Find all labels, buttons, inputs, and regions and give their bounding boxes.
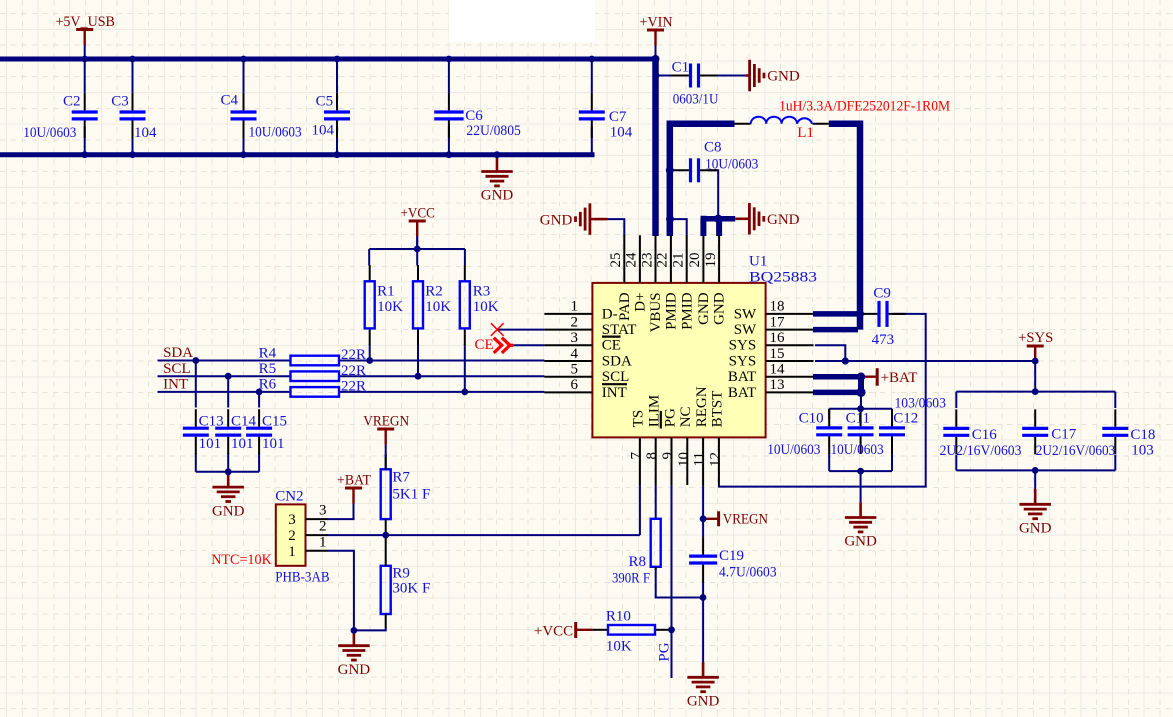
svg-text:C9: C9 (873, 286, 891, 302)
svg-text:22R: 22R (341, 347, 366, 363)
svg-text:U1: U1 (749, 254, 767, 270)
resistor R4 (291, 356, 340, 366)
svg-text:VREGN: VREGN (723, 512, 768, 528)
C18 designator (1130, 427, 1155, 443)
wire BAT to C10 group top rail (860, 394, 862, 409)
U1 pin 14 BAT (766, 376, 814, 378)
U1 pin 1 D- (544, 313, 592, 315)
svg-text:C19: C19 (719, 548, 744, 564)
capacitor C11 (848, 409, 874, 454)
svg-text:R8: R8 (628, 554, 646, 570)
svg-text:SCL: SCL (163, 361, 191, 377)
U1 pin 8 ILIM overline (660, 411, 662, 429)
C9 value 473 (872, 332, 895, 348)
capacitor C1 (656, 64, 718, 88)
wire C18 bottom lead (1114, 455, 1116, 470)
U1 pin 16 name SYS (729, 338, 757, 354)
CN2 pin 2 name (319, 519, 327, 535)
wire C17 group to GND (1034, 470, 1036, 489)
C10 designator (799, 411, 824, 427)
C13 designator (199, 414, 224, 430)
svg-text:11: 11 (692, 452, 708, 466)
C7 value 104 (610, 125, 633, 141)
C4 designator (220, 93, 238, 109)
ground left of U1 pin 25 PAD (540, 203, 608, 235)
svg-text:30K F: 30K F (392, 581, 430, 597)
svg-text:13: 13 (770, 377, 785, 393)
wire C8 right to GND bracket (708, 170, 718, 219)
power port +VIN (640, 15, 673, 60)
svg-text:C4: C4 (220, 93, 238, 109)
wire C18 top lead (1114, 392, 1116, 408)
R3 designator (473, 283, 491, 299)
svg-text:VREGN: VREGN (363, 414, 409, 430)
junction R3 INT (461, 389, 468, 396)
CN2 pin 1 name (319, 534, 327, 550)
U1 pin 2 number (571, 314, 579, 330)
svg-text:4.7U/0603: 4.7U/0603 (719, 565, 777, 581)
svg-text:CN2: CN2 (275, 489, 303, 505)
svg-text:1uH/3.3A/DFE252012F-1R0M: 1uH/3.3A/DFE252012F-1R0M (779, 99, 950, 115)
wire U1 PAD pin 25 to GND (608, 219, 625, 236)
svg-text:REGN: REGN (694, 386, 710, 427)
svg-text:21: 21 (671, 253, 687, 268)
U1 pin 23 number (639, 253, 655, 268)
R8 value 390R F (612, 571, 650, 587)
svg-text:C17: C17 (1051, 426, 1077, 442)
U1 pin 13 number (770, 377, 785, 393)
C14 designator (231, 414, 257, 430)
U1 pin 14 name BAT (728, 369, 756, 385)
C2 designator (63, 94, 81, 110)
U1 value BQ25883 (749, 270, 817, 286)
U1 pin 4 SDA (544, 360, 592, 362)
U1 pin 21 PMID (686, 235, 688, 283)
junction C8 left at PMID (666, 166, 674, 174)
svg-text:CE: CE (475, 337, 494, 353)
svg-text:12: 12 (707, 452, 723, 467)
wire C16 C17 C18 bottom rail (956, 469, 1115, 471)
wire C16 top lead (955, 392, 957, 408)
R10 designator (606, 609, 631, 625)
junction +VIN rail (652, 55, 660, 63)
wire GND bottom rail (0, 152, 595, 157)
junction +5V_USB C2 top (81, 56, 88, 63)
C11 designator (846, 411, 870, 427)
L1 designator (797, 125, 814, 141)
R9 designator (392, 565, 410, 581)
connector CN2 body (276, 504, 306, 565)
capacitor C12 (879, 409, 905, 454)
wire SDA row (158, 360, 291, 362)
R10 value 10K (606, 638, 632, 654)
C11 value 10U/0603 (831, 442, 884, 458)
CN2 pin 3 name (319, 503, 327, 519)
svg-text:2: 2 (288, 528, 296, 544)
svg-text:22R: 22R (341, 379, 366, 395)
svg-text:PAD: PAD (617, 292, 633, 321)
U1 pin 6 INT (544, 391, 592, 393)
capacitor C13 (183, 409, 209, 454)
capacitor C2 (72, 61, 98, 153)
wire NTC net: CN2 pin2 to U1 TS pin 7 (328, 485, 640, 535)
U1 pin 20 name GND (696, 292, 712, 325)
resistor R8 (651, 519, 661, 570)
resistor R2 (413, 265, 423, 345)
svg-text:GND: GND (767, 69, 800, 85)
U1 pin 25 PAD (623, 235, 625, 283)
R8 designator (628, 554, 646, 570)
junction +VCC distribution (414, 246, 421, 253)
U1 pin 11 number (692, 452, 708, 466)
C15 value 101 (262, 436, 285, 452)
svg-text:R5: R5 (259, 361, 277, 377)
C7 designator (609, 109, 627, 125)
U1 pin 22 number (655, 253, 671, 268)
U1 pin 3 CE overline (602, 336, 621, 338)
C14 value 101 (231, 436, 254, 452)
svg-text:C16: C16 (972, 427, 998, 443)
op-amp U1 body BQ25883 (592, 283, 765, 438)
resistor R5 (291, 371, 340, 381)
wire C13 bottom (195, 453, 197, 472)
wire C15 to INT row (258, 392, 260, 408)
svg-text:16: 16 (770, 330, 786, 346)
wire BAT: U1 pins 14 13 to +BAT (813, 374, 861, 395)
wire C10 C11 C12 bottom rail (829, 470, 892, 472)
svg-text:GND: GND (696, 292, 712, 325)
U1 pin 9 PG (671, 437, 673, 485)
U1 pin 7 TS (639, 437, 641, 485)
svg-text:3: 3 (288, 512, 296, 528)
capacitor C16 (943, 409, 969, 454)
ground below CN2 / R9 (338, 630, 371, 678)
svg-text:SW: SW (734, 322, 757, 338)
U1 pin 3 number (571, 330, 579, 346)
svg-text:2: 2 (319, 519, 327, 535)
net identifier CE chevrons (494, 338, 514, 353)
junction PMID pins 21 22 (666, 215, 674, 223)
wire +SYS from U1 SYS pins to C16 group (815, 360, 1035, 362)
C5 value 104 (312, 123, 335, 139)
ground right of GND bracket (735, 203, 799, 235)
wire R10 to PG junction (671, 629, 673, 631)
junction C4 bottom (240, 151, 247, 158)
svg-text:R2: R2 (425, 283, 443, 299)
U1 pin 18 SW (766, 313, 814, 315)
svg-text:+5V_USB: +5V_USB (55, 14, 115, 30)
C15 designator (262, 414, 287, 430)
svg-text:+BAT: +BAT (337, 473, 371, 489)
U1 pin 21 number (671, 253, 687, 268)
power port +BAT left (337, 473, 371, 518)
power port VREGN right (703, 511, 768, 527)
svg-text:22R: 22R (341, 363, 366, 379)
R2 value 10K (425, 299, 451, 315)
svg-text:GND: GND (1019, 521, 1052, 537)
junction C17 top (1032, 388, 1039, 395)
svg-text:L1: L1 (797, 125, 814, 141)
U1 pin 25 number (608, 253, 624, 268)
svg-text:R3: R3 (473, 283, 491, 299)
ground for C1 (right of C1) (746, 60, 800, 92)
C1 value 0603/1U (673, 92, 719, 108)
svg-text:103/0603: 103/0603 (895, 396, 946, 412)
junction C13 SDA (192, 357, 199, 364)
svg-text:C8: C8 (704, 140, 722, 156)
svg-text:4: 4 (571, 346, 579, 362)
wire R9 bottom to GND junction (354, 628, 386, 630)
power port +SYS (1018, 330, 1053, 361)
resistor R10 (593, 625, 670, 635)
wire INT row right of R6 (339, 391, 544, 393)
U1 pin 7 number (628, 452, 644, 460)
U1 pin 5 SCL (544, 376, 592, 378)
R4 designator (259, 346, 277, 362)
R5 designator (259, 361, 277, 377)
wire C19 bottom to GND (702, 582, 704, 598)
U1 pin 10 name NC (678, 406, 694, 427)
U1 pin 8 ILIM (655, 437, 657, 485)
NoERC cross on STAT (491, 323, 504, 336)
svg-text:+VCC: +VCC (400, 206, 435, 222)
net label SDA (163, 345, 193, 361)
U1 pin 13 name BAT (728, 385, 756, 401)
svg-text:1: 1 (288, 544, 296, 560)
R5 value 22R (341, 363, 366, 379)
power port +5V_USB (55, 14, 115, 59)
junction C15 INT (256, 389, 263, 396)
svg-text:104: 104 (312, 123, 335, 139)
wire C10 top lead (828, 409, 830, 419)
wire C16 C17 C18 top rail (956, 391, 1115, 393)
wire GND net below C19 (702, 598, 704, 663)
capacitor C8 (672, 158, 718, 182)
C13 value 101 (199, 436, 222, 452)
svg-text:10U/0603: 10U/0603 (831, 442, 884, 458)
C17 designator (1051, 426, 1077, 442)
svg-text:+SYS: +SYS (1018, 330, 1053, 346)
U1 pin 8 number (644, 452, 660, 460)
svg-text:C2: C2 (63, 94, 81, 110)
U1 pin 1 number (571, 299, 579, 315)
svg-text:SDA: SDA (602, 353, 632, 369)
svg-text:24: 24 (624, 252, 640, 268)
wire CN2 pin1 down to GND (328, 551, 354, 631)
svg-text:8: 8 (644, 452, 660, 460)
svg-text:BQ25883: BQ25883 (749, 270, 817, 286)
svg-text:PG: PG (656, 642, 672, 661)
svg-text:GND: GND (712, 292, 728, 325)
C10 value 10U/0603 (767, 442, 820, 458)
junction C2 bottom (81, 151, 88, 158)
capacitor C17 (1022, 409, 1048, 454)
wire SW: L1 right side down to U1 SW pins (813, 124, 860, 330)
C3 designator (111, 94, 129, 110)
junction VREGN right (700, 515, 707, 522)
wire C1 to GND (708, 75, 746, 77)
power port +BAT right (861, 368, 917, 386)
svg-text:D+: D+ (633, 292, 649, 311)
svg-text:C3: C3 (111, 94, 129, 110)
svg-text:3: 3 (319, 503, 327, 519)
junction C7 top (588, 56, 595, 63)
CN2 pin 2 number inside (288, 528, 296, 544)
resistor R6 (291, 387, 340, 397)
svg-text:BAT: BAT (728, 385, 756, 401)
capacitor C5 (324, 61, 350, 153)
svg-text:R1: R1 (377, 283, 395, 299)
junction C3 top (129, 56, 136, 63)
capacitor C3 (120, 61, 146, 153)
svg-text:9: 9 (660, 452, 676, 460)
svg-text:17: 17 (770, 314, 786, 330)
R9 value 30K F (392, 581, 430, 597)
U1 pin 10 number (676, 452, 692, 467)
U1 pin 14 number (770, 362, 786, 378)
C2 value 10U/0603 (23, 125, 76, 141)
capacitor C7 (579, 61, 605, 153)
C8 designator (704, 140, 722, 156)
inductor L1 (735, 117, 829, 124)
wire SDA row right of R4 (339, 360, 544, 362)
svg-text:GND: GND (481, 188, 514, 204)
svg-text:7: 7 (628, 452, 644, 460)
U1 pin 1 name D- (602, 306, 618, 322)
CN2 pin 3 number inside (288, 512, 296, 528)
svg-text:C5: C5 (316, 94, 334, 110)
svg-text:6: 6 (571, 377, 579, 393)
wire PG: U1 pin 9 down (671, 485, 673, 678)
wire C14 to SCL row (227, 376, 229, 407)
svg-text:C13: C13 (199, 414, 224, 430)
R3 value 10K (473, 299, 499, 315)
capacitor C15 (246, 409, 272, 454)
svg-text:PMID: PMID (664, 292, 680, 330)
wire C16 bottom lead (955, 455, 957, 470)
capacitor C14 (215, 409, 241, 454)
wire GND stub below rails (496, 155, 498, 159)
svg-text:1: 1 (571, 299, 579, 315)
svg-text:SYS: SYS (729, 353, 757, 369)
svg-text:22: 22 (655, 253, 671, 268)
net label SCL (163, 361, 191, 377)
capacitor C19 (689, 537, 717, 582)
junction R1 SDA (366, 357, 373, 364)
junction C5 top (334, 56, 341, 63)
U1 pin 6 number (571, 377, 579, 393)
wire C12 bottom lead (891, 453, 893, 471)
svg-text:101: 101 (231, 436, 254, 452)
U1 pin 21 name PMID (679, 292, 695, 330)
wire R3 to INT row (464, 344, 466, 392)
C17 value 2U2/16V/0603 (1036, 443, 1116, 459)
svg-text:C1: C1 (672, 59, 690, 75)
CN2 pin 1 (306, 550, 329, 552)
capacitor C18 (1102, 409, 1128, 454)
svg-text:101: 101 (199, 436, 222, 452)
C12 value 103/0603 (895, 396, 946, 412)
junction R10 PG (668, 626, 675, 633)
svg-text:PHB-3AB: PHB-3AB (275, 570, 329, 586)
capacitor C10 (816, 409, 842, 454)
CN2 pin 3 (306, 518, 329, 520)
U1 pin 18 number (770, 299, 785, 315)
wire C1 net from +VIN (656, 75, 682, 77)
R1 designator (377, 283, 395, 299)
svg-text:+VIN: +VIN (640, 15, 673, 31)
svg-text:C7: C7 (609, 109, 627, 125)
wire U1 PMID pin 21 to PMID net (670, 219, 687, 236)
U1 pin 6 name INT (602, 385, 627, 401)
capacitor C6 (434, 61, 463, 153)
C5 designator (316, 94, 334, 110)
capacitor C9 (860, 301, 906, 327)
svg-text:GND: GND (540, 212, 573, 228)
R6 designator (259, 377, 277, 393)
wire REGN: U1 pin 11 down to C19 (702, 485, 704, 537)
L1 parameter 1uH/3.3A/DFE252012F-1R0M (779, 99, 950, 115)
svg-text:GND: GND (687, 694, 720, 710)
svg-text:NC: NC (678, 406, 694, 427)
net label CE (475, 337, 494, 353)
resistor R1 (365, 265, 375, 345)
C18 value 103 (1131, 442, 1154, 458)
U1 pin 3 CE (544, 344, 592, 346)
svg-text:25: 25 (608, 253, 624, 268)
svg-text:GND: GND (844, 534, 877, 550)
svg-text:473: 473 (872, 332, 895, 348)
ground below C16 C17 C18 (1019, 489, 1052, 537)
svg-text:+VCC: +VCC (534, 623, 573, 639)
ground below bottom rail (481, 156, 514, 204)
wire BTST: C9 right to U1 pin 12 (719, 314, 926, 487)
C16 designator (972, 427, 998, 443)
svg-text:GND: GND (338, 662, 371, 678)
wire INT row (158, 391, 291, 393)
svg-text:C11: C11 (846, 411, 870, 427)
svg-text:PG: PG (662, 408, 678, 427)
wire +SYS down to C17 top rail (1034, 361, 1036, 392)
R1 value 10K (377, 299, 403, 315)
svg-text:C12: C12 (893, 411, 918, 427)
svg-text:SW: SW (734, 306, 757, 322)
resistor R3 (460, 265, 470, 345)
C19 value 4.7U/0603 (719, 565, 777, 581)
power port VREGN top (363, 414, 409, 459)
junction C3 bottom (129, 151, 136, 158)
svg-text:CE: CE (602, 338, 621, 354)
svg-text:104: 104 (134, 125, 157, 141)
capacitor C4 (231, 61, 257, 153)
junction SW C9 L1 (856, 310, 864, 318)
C3 value 104 (134, 125, 157, 141)
NTC=10K parameter (211, 552, 272, 568)
svg-text:2U2/16V/0603: 2U2/16V/0603 (1036, 443, 1116, 459)
U1 pin 4 number (571, 346, 579, 362)
U1 pin 9 name PG (662, 408, 678, 427)
svg-text:3: 3 (571, 330, 579, 346)
wire +5V_USB top rail (0, 57, 658, 62)
wire SW to C9 (860, 313, 866, 315)
svg-text:C10: C10 (799, 411, 824, 427)
R6 value 22R (341, 379, 366, 395)
wire SYS: U1 pin 16 jog to pin 15 row (815, 345, 845, 361)
junction R7 R9 CN2 pin2 TS (382, 532, 389, 539)
U1 pin 22 name PMID (664, 292, 680, 330)
svg-text:R7: R7 (392, 469, 410, 485)
svg-text:INT: INT (602, 385, 627, 401)
